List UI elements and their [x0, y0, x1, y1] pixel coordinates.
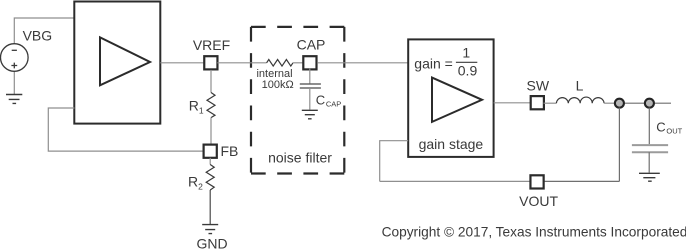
ground (noise filter): [302, 110, 318, 119]
gain stage block U2: [408, 39, 493, 156]
plus sign of VBG: [11, 63, 17, 69]
op-amp triangle: [100, 37, 150, 85]
node FB pad: [204, 145, 217, 158]
wire inductor to node: [604, 102, 614, 104]
junction node 2: [645, 99, 654, 108]
svg-text:gain stage: gain stage: [419, 136, 484, 152]
wire node 1 down to VOUT line: [618, 108, 620, 182]
capacitor C_CAP: [300, 84, 321, 88]
svg-text:SW: SW: [527, 77, 550, 93]
svg-text:VREF: VREF: [193, 37, 230, 53]
svg-text:1: 1: [462, 44, 470, 60]
wire R1 to FB: [210, 118, 212, 145]
svg-text:FB: FB: [221, 143, 239, 159]
wire VBG bottom to ground: [13, 71, 15, 94]
wire VREF to internal resistor: [217, 62, 266, 64]
resistor R2: [206, 165, 214, 191]
wire R2 to ground: [209, 190, 211, 224]
minus sign of VBG: [12, 49, 17, 51]
voltage source VBG: [1, 44, 29, 72]
wire node 2 to C_OUT: [648, 108, 650, 145]
svg-text:Copyright © 2017, Texas Instru: Copyright © 2017, Texas Instruments Inco…: [382, 224, 686, 239]
wire VOUT line right of pad: [544, 180, 620, 182]
wire amplifier output to VREF: [160, 62, 204, 64]
ground (C_OUT): [639, 173, 660, 181]
svg-text:CAP: CAP: [297, 37, 326, 53]
wire VBG top to amplifier input: [14, 18, 74, 44]
inductor L: [556, 97, 604, 103]
gain stage triangle: [432, 78, 482, 122]
node VREF pad: [204, 56, 217, 69]
node CAP pad: [303, 56, 316, 69]
wire between output nodes: [619, 102, 649, 104]
noise filter dashed box: [251, 27, 344, 174]
wire CAP pad to capacitor: [309, 69, 311, 84]
svg-text:OUT: OUT: [666, 127, 682, 136]
svg-text:gain =: gain =: [414, 55, 453, 71]
svg-text:VBG: VBG: [23, 27, 53, 43]
wire SW to inductor: [544, 102, 557, 104]
wire CAP to gain stage: [317, 62, 408, 64]
wire FB to R2: [209, 158, 211, 165]
svg-text:noise filter: noise filter: [268, 149, 332, 165]
wire VOUT line left of pad: [380, 180, 531, 182]
wire C_OUT to ground: [648, 152, 650, 172]
capacitor C_OUT: [632, 145, 668, 152]
op-amp block U1: [74, 2, 160, 124]
svg-text:GND: GND: [197, 236, 228, 252]
ground (below R2): [202, 225, 218, 234]
junction node 1: [615, 99, 624, 108]
internal resistor 100k: [267, 60, 293, 67]
svg-text:C: C: [316, 93, 325, 108]
node VOUT pad: [530, 175, 543, 188]
svg-text:0.9: 0.9: [458, 63, 478, 79]
svg-text:CAP: CAP: [326, 99, 341, 108]
node SW pad: [531, 96, 544, 109]
wire VREF to R1: [210, 70, 212, 93]
wire right of second node: [649, 102, 671, 104]
svg-text:L: L: [576, 77, 584, 93]
wire internal resistor to CAP: [293, 62, 303, 64]
svg-text:C: C: [656, 120, 665, 135]
ground (VBG): [6, 95, 22, 104]
wire feedback to gain stage: [380, 141, 409, 182]
wire gain stage output to SW: [494, 102, 530, 104]
wire feedback from FB to amplifier: [48, 108, 203, 151]
resistor R1: [207, 93, 215, 118]
svg-text:100kΩ: 100kΩ: [262, 79, 294, 91]
svg-text:VOUT: VOUT: [519, 193, 558, 209]
wire capacitor to ground: [309, 88, 311, 110]
fraction bar: [456, 61, 477, 63]
